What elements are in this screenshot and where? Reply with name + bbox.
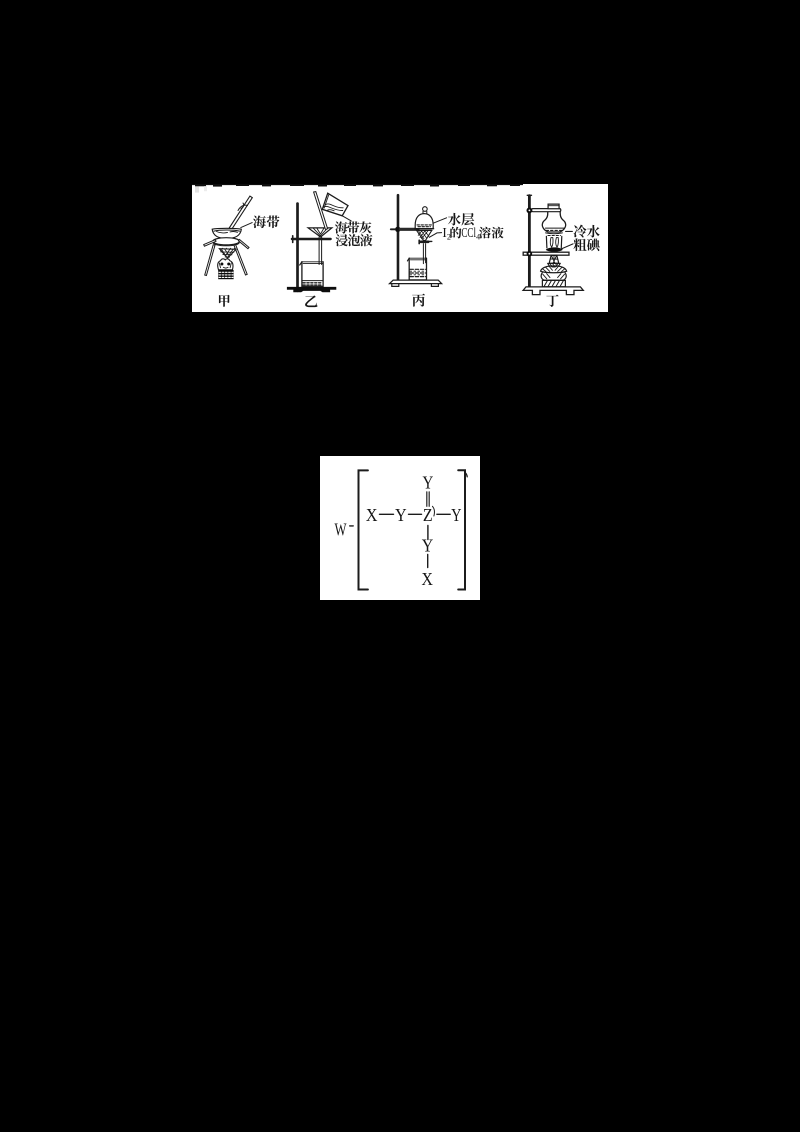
leader to water-layer label [433,217,446,222]
clay triangle zigzag [221,248,236,251]
lamp wick (ding) [549,255,559,263]
stand base (yi) [287,287,336,292]
tripod leg left [205,244,215,275]
pouring beaker (yi) [322,193,348,216]
stand rod (yi) [296,203,299,290]
double bond Z=Y [427,492,429,506]
svg-text:Y: Y [451,505,461,525]
flask stopper (ding) [548,204,559,209]
caption jia [219,294,230,306]
iodine vapour wisps [550,237,558,247]
svg-text:CCl: CCl [461,225,476,240]
evaporating dish [212,228,241,238]
clamp boss (bing) [395,226,400,231]
stand rod (bing) [397,195,400,282]
bond Z-Y [437,513,450,515]
svg-text:2: 2 [447,232,451,241]
separating funnel stopper knob [423,206,428,211]
crude iodine at bottom [546,247,563,251]
glass rod (yi) [314,191,328,229]
label cold water (ding) [574,224,587,237]
white panel 1: lab apparatus figure [192,184,608,312]
caption ding [546,294,558,306]
dash before cold-water label [566,230,573,232]
svg-text:Y: Y [395,505,407,525]
tripod leg right [234,244,247,274]
label kelp-ash soak row2 (yi) [336,234,348,246]
top clamp arm (ding) [531,208,560,211]
caption yi [305,295,317,307]
svg-text:Y: Y [423,473,434,493]
label kelp-ash soak row1 (yi) [335,221,347,233]
beaker (yi) [302,261,323,285]
clay triangle / funnel [219,248,236,257]
lamp base block (jia) [218,270,233,279]
flask with cold water (ding) [542,209,565,232]
svg-text:4: 4 [476,232,480,241]
leader line to label (yi) [342,215,351,220]
beaker (bing) [409,258,426,280]
vessel with crude iodine (ding) [548,234,560,236]
water layer hatch (bing) [417,225,431,227]
caption bing [412,293,425,306]
label kelp (jia) [253,215,266,228]
stopcock (bing) [421,240,429,243]
svg-text:Z: Z [423,505,433,525]
small tick after Z [433,506,435,516]
iron ring arm (yi) [292,237,331,239]
bond X-Y [380,513,394,515]
glass rod (jia) [228,196,252,231]
iron ring under dish [213,237,240,244]
iron ring (ding) [523,252,569,255]
left bracket [359,470,368,589]
top clamp boss (ding) [526,207,532,213]
separating funnel bulb [415,213,433,228]
svg-text:Y: Y [422,536,434,556]
hatched block under lamp (ding) [542,280,565,286]
liquid in beaker (bing) [410,269,426,276]
kelp wisp on rod [238,203,247,210]
flask bottom edge [546,232,563,235]
clamp arm (bing) [400,227,418,230]
svg-text:X: X [422,569,434,589]
stand base (ding) [523,287,583,295]
leader to I2 CCl4 label [429,232,441,237]
funnel flange [415,228,434,230]
cold water level (ding) [545,227,564,229]
white panel 2: ion structural formula [320,456,480,600]
leader line to kelp label [241,222,252,227]
svg-text:X: X [366,505,378,525]
svg-text:W: W [335,520,347,540]
funnel stem (yi) [319,237,321,264]
bracket superscript tick [465,472,467,476]
alcohol lamp body (ding) [541,266,567,273]
bond Y-X down [427,555,429,568]
ring handle left [204,239,216,245]
label crude iodine (ding) [573,238,586,251]
lower cone with I2/CCl4 layer [417,230,432,240]
cropped text remnants along top edge [192,184,523,193]
alcohol lamp body (jia) [218,258,233,269]
label water layer (bing) [448,213,461,226]
leader to crude-iodine label [560,244,573,249]
right bracket [458,470,465,589]
superscript charge mark [350,525,354,527]
filtrate in beaker (yi) [302,279,322,281]
bond Y-Z [409,513,422,515]
ring handle right [238,239,249,248]
funnel (yi) [308,228,332,237]
stand base (bing) [390,280,442,283]
stand rod (ding) [528,195,531,286]
panel 1 Chinese labels [219,213,600,307]
bond Z-Y down [427,526,429,540]
funnel stem (bing) [423,243,425,263]
